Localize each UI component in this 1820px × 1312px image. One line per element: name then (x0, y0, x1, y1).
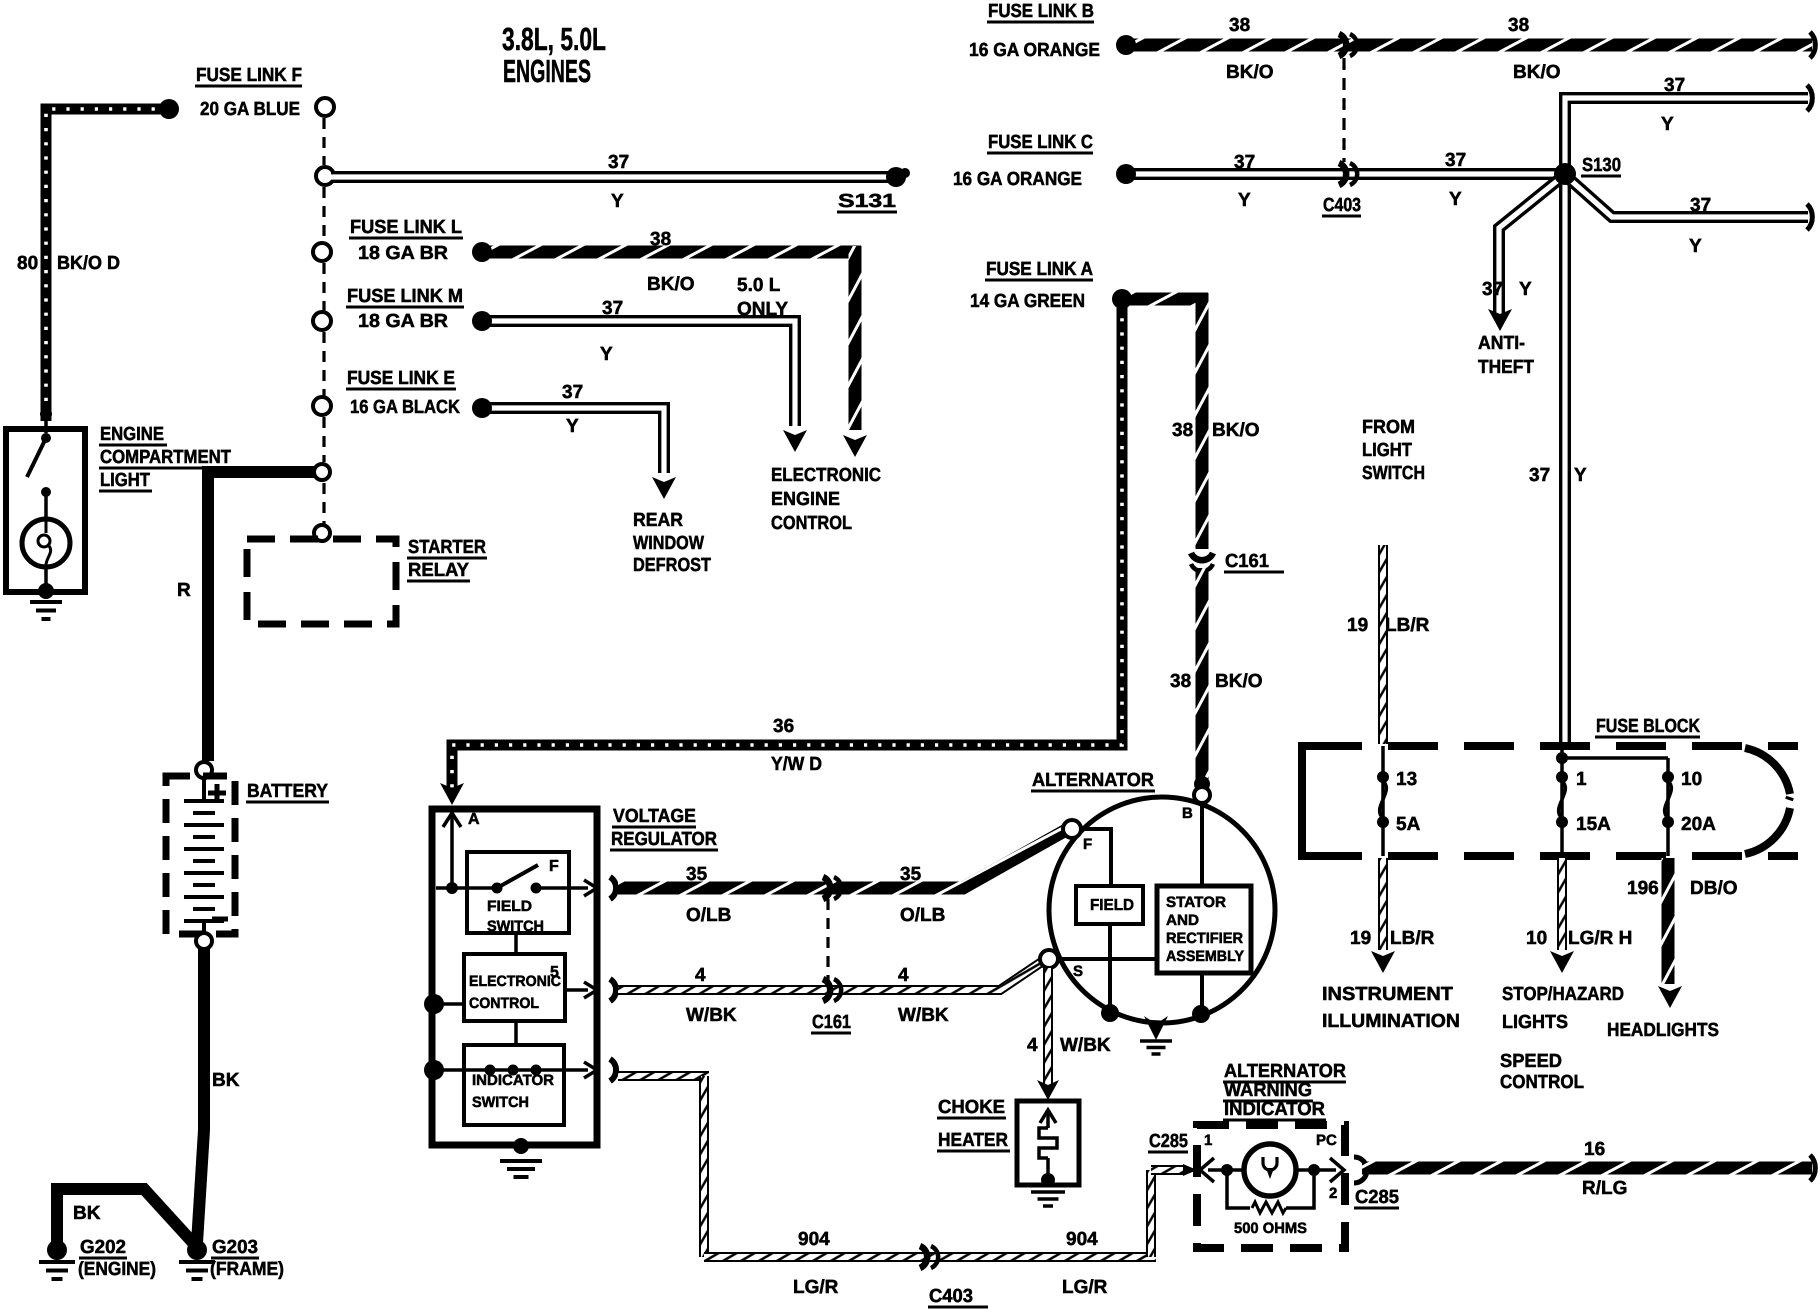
svg-text:37: 37 (1445, 150, 1466, 171)
svg-text:BK: BK (73, 1203, 101, 1224)
svg-text:35: 35 (686, 864, 708, 885)
svg-text:INSTRUMENT: INSTRUMENT (1322, 984, 1453, 1005)
svg-text:C403: C403 (1323, 195, 1361, 216)
svg-text:Y: Y (1449, 189, 1462, 210)
svg-text:SWITCH: SWITCH (472, 1094, 529, 1111)
svg-text:C161: C161 (1225, 551, 1269, 572)
svg-text:ALTERNATOR: ALTERNATOR (1224, 1061, 1346, 1082)
svg-text:10: 10 (1681, 769, 1702, 790)
svg-text:37: 37 (602, 298, 623, 319)
svg-text:INDICATOR: INDICATOR (1224, 1099, 1325, 1120)
svg-text:16: 16 (1584, 1139, 1605, 1160)
svg-text:STARTER: STARTER (408, 537, 486, 558)
svg-text:C285: C285 (1149, 1131, 1188, 1152)
svg-text:Y: Y (600, 344, 613, 365)
svg-text:904: 904 (798, 1229, 830, 1250)
svg-text:38: 38 (1170, 671, 1191, 692)
svg-text:B: B (1182, 805, 1193, 822)
svg-text:WARNING: WARNING (1224, 1080, 1312, 1101)
svg-text:Y: Y (1661, 114, 1674, 135)
svg-text:WINDOW: WINDOW (633, 533, 704, 554)
svg-text:18 GA BR: 18 GA BR (358, 311, 448, 332)
svg-text:HEADLIGHTS: HEADLIGHTS (1607, 1020, 1719, 1041)
svg-text:16 GA BLACK: 16 GA BLACK (350, 397, 460, 418)
svg-text:S130: S130 (1582, 155, 1621, 176)
svg-text:BK/O: BK/O (1212, 420, 1260, 441)
svg-text:FIELD: FIELD (1090, 897, 1134, 914)
svg-text:DEFROST: DEFROST (633, 555, 711, 576)
svg-text:16 GA ORANGE: 16 GA ORANGE (953, 169, 1082, 190)
svg-text:ALTERNATOR: ALTERNATOR (1032, 770, 1154, 791)
svg-text:COMPARTMENT: COMPARTMENT (100, 447, 231, 468)
svg-text:C161: C161 (812, 1012, 851, 1033)
svg-text:FUSE BLOCK: FUSE BLOCK (1596, 716, 1700, 737)
svg-text:37: 37 (1482, 279, 1503, 300)
svg-text:BK/O: BK/O (1215, 671, 1263, 692)
svg-text:FUSE LINK B: FUSE LINK B (988, 1, 1094, 22)
svg-text:Y: Y (1519, 279, 1532, 300)
svg-text:LG/R: LG/R (1062, 1277, 1108, 1298)
svg-text:38: 38 (1229, 15, 1250, 36)
svg-text:SWITCH: SWITCH (487, 918, 544, 935)
svg-text:4: 4 (1027, 1035, 1038, 1056)
svg-text:CONTROL: CONTROL (1500, 1072, 1584, 1093)
svg-text:FUSE LINK C: FUSE LINK C (988, 132, 1093, 153)
svg-text:S131: S131 (838, 191, 897, 212)
svg-text:37: 37 (1664, 75, 1685, 96)
svg-text:BK/O: BK/O (647, 274, 695, 295)
svg-text:BK/O D: BK/O D (57, 253, 120, 274)
svg-text:37: 37 (1690, 195, 1711, 216)
svg-text:20 GA BLUE: 20 GA BLUE (200, 99, 300, 120)
svg-text:O/LB: O/LB (900, 905, 945, 926)
svg-text:ENGINE: ENGINE (771, 489, 840, 510)
svg-text:FUSE LINK M: FUSE LINK M (347, 286, 463, 307)
svg-text:38: 38 (1172, 420, 1193, 441)
svg-text:SWITCH: SWITCH (1362, 463, 1425, 484)
svg-text:20A: 20A (1681, 814, 1716, 835)
svg-text:LIGHT: LIGHT (100, 470, 150, 491)
svg-text:FUSE LINK A: FUSE LINK A (986, 259, 1093, 280)
svg-text:S: S (1073, 963, 1083, 980)
svg-text:INDICATOR: INDICATOR (472, 1072, 554, 1089)
svg-text:Y: Y (566, 416, 579, 437)
svg-text:BK: BK (212, 1070, 240, 1091)
svg-text:14 GA GREEN: 14 GA GREEN (970, 291, 1085, 312)
svg-text:Y: Y (1689, 236, 1702, 257)
svg-text:4: 4 (898, 965, 909, 986)
svg-text:BK/O: BK/O (1513, 62, 1561, 83)
svg-text:37: 37 (562, 382, 583, 403)
svg-text:HEATER: HEATER (938, 1130, 1008, 1151)
svg-text:CONTROL: CONTROL (469, 995, 539, 1012)
svg-text:FUSE LINK E: FUSE LINK E (347, 368, 455, 389)
svg-text:37: 37 (1234, 152, 1255, 173)
svg-text:ENGINE: ENGINE (100, 424, 164, 445)
svg-text:R: R (177, 580, 191, 601)
svg-text:STOP/HAZARD: STOP/HAZARD (1502, 984, 1624, 1005)
svg-text:196: 196 (1627, 878, 1659, 899)
svg-text:CHOKE: CHOKE (938, 1097, 1005, 1118)
svg-text:C403: C403 (929, 1286, 973, 1307)
svg-text:PC: PC (1316, 1132, 1337, 1149)
svg-text:LB/R: LB/R (1390, 928, 1435, 949)
svg-text:3.8L, 5.0L: 3.8L, 5.0L (502, 21, 606, 57)
svg-text:Y: Y (1574, 465, 1587, 486)
svg-text:W/BK: W/BK (898, 1005, 949, 1026)
svg-text:(ENGINE): (ENGINE) (78, 1259, 156, 1280)
svg-text:ENGINES: ENGINES (503, 53, 591, 89)
svg-text:G203: G203 (212, 1237, 258, 1258)
svg-text:36: 36 (773, 716, 794, 737)
svg-text:35: 35 (900, 864, 922, 885)
svg-text:DB/O: DB/O (1690, 878, 1738, 899)
svg-text:Y/W D: Y/W D (771, 754, 822, 775)
svg-text:W/BK: W/BK (686, 1005, 737, 1026)
svg-text:16 GA ORANGE: 16 GA ORANGE (969, 40, 1100, 61)
svg-text:ONLY: ONLY (737, 299, 788, 320)
svg-text:ELECTRONIC: ELECTRONIC (771, 465, 881, 486)
svg-text:REAR: REAR (633, 510, 683, 531)
svg-text:Y: Y (611, 191, 624, 212)
svg-text:ANTI-: ANTI- (1478, 333, 1525, 354)
svg-text:Y: Y (1238, 190, 1251, 211)
svg-text:19: 19 (1347, 615, 1368, 636)
svg-text:AND: AND (1166, 912, 1199, 929)
svg-text:13: 13 (1396, 769, 1417, 790)
svg-text:F: F (1083, 836, 1092, 853)
svg-text:LIGHTS: LIGHTS (1502, 1012, 1568, 1033)
svg-text:38: 38 (1508, 15, 1529, 36)
svg-text:ELECTRONIC: ELECTRONIC (469, 973, 561, 990)
svg-text:VOLTAGE: VOLTAGE (613, 806, 696, 827)
svg-text:G202: G202 (80, 1237, 126, 1258)
svg-text:ILLUMINATION: ILLUMINATION (1322, 1011, 1460, 1032)
svg-text:5.0 L: 5.0 L (737, 275, 781, 296)
svg-text:REGULATOR: REGULATOR (611, 829, 717, 850)
svg-text:37: 37 (1529, 465, 1550, 486)
svg-text:LG/R: LG/R (793, 1277, 839, 1298)
svg-text:15A: 15A (1576, 814, 1611, 835)
svg-text:O/LB: O/LB (686, 905, 731, 926)
svg-text:18 GA BR: 18 GA BR (358, 243, 448, 264)
svg-text:C285: C285 (1355, 1187, 1399, 1208)
svg-text:THEFT: THEFT (1478, 357, 1534, 378)
svg-text:FIELD: FIELD (487, 898, 532, 915)
svg-text:BATTERY: BATTERY (247, 781, 328, 802)
svg-text:2: 2 (1329, 1185, 1337, 1202)
svg-text:37: 37 (608, 152, 629, 173)
svg-text:904: 904 (1066, 1229, 1098, 1250)
svg-text:10: 10 (1526, 928, 1547, 949)
svg-text:38: 38 (650, 229, 671, 250)
svg-text:ASSEMBLY: ASSEMBLY (1166, 948, 1244, 965)
svg-text:(FRAME): (FRAME) (210, 1259, 284, 1280)
svg-text:4: 4 (695, 965, 706, 986)
svg-text:FUSE LINK F: FUSE LINK F (196, 65, 302, 86)
svg-text:1: 1 (1204, 1132, 1212, 1149)
svg-text:LB/R: LB/R (1385, 615, 1430, 636)
svg-text:FUSE LINK L: FUSE LINK L (350, 217, 462, 238)
svg-text:W/BK: W/BK (1060, 1035, 1111, 1056)
svg-text:CONTROL: CONTROL (771, 513, 852, 534)
svg-text:STATOR: STATOR (1166, 894, 1226, 911)
svg-text:R/LG: R/LG (1582, 1178, 1627, 1199)
svg-text:FROM: FROM (1362, 417, 1415, 438)
svg-text:5A: 5A (1396, 814, 1421, 835)
svg-text:19: 19 (1350, 928, 1371, 949)
svg-text:RECTIFIER: RECTIFIER (1166, 930, 1243, 947)
svg-text:LIGHT: LIGHT (1362, 440, 1412, 461)
svg-text:RELAY: RELAY (408, 560, 469, 581)
svg-text:500 OHMS: 500 OHMS (1234, 1220, 1307, 1237)
svg-text:1: 1 (1576, 769, 1587, 790)
svg-text:80: 80 (17, 253, 38, 274)
svg-text:LG/R H: LG/R H (1568, 928, 1632, 949)
svg-text:A: A (468, 811, 480, 828)
svg-text:BK/O: BK/O (1226, 62, 1274, 83)
svg-text:SPEED: SPEED (1500, 1051, 1562, 1072)
svg-text:F: F (549, 858, 559, 875)
